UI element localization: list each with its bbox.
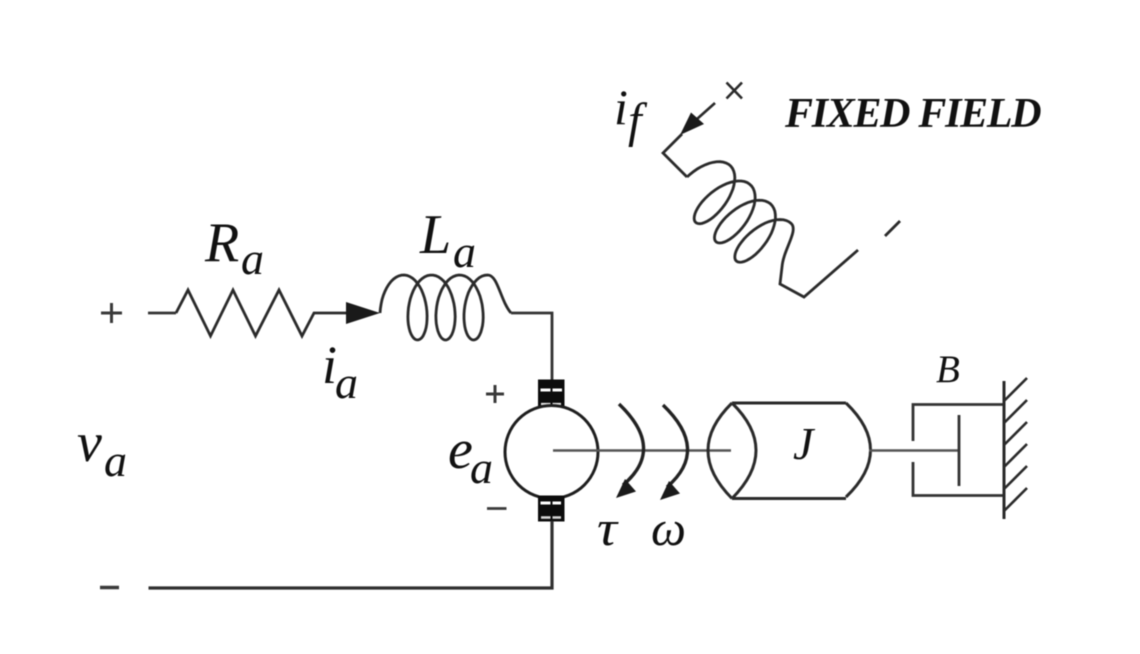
field wire lower jog (780, 250, 858, 297)
current arrow i_a (346, 302, 380, 324)
wire motor to bottom (149, 521, 553, 588)
svg-text:a: a (470, 442, 493, 493)
svg-text:a: a (241, 233, 264, 284)
svg-text:R: R (204, 212, 239, 274)
motor circle e_a (505, 406, 598, 499)
svg-text:f: f (628, 93, 648, 148)
wire (148, 312, 176, 315)
label - (below motor) (487, 507, 507, 510)
field current arrowhead (680, 113, 704, 136)
svg-text:v: v (77, 412, 102, 474)
svg-text:ω: ω (651, 500, 686, 556)
wall (1003, 381, 1006, 519)
label + (above motor) (486, 385, 504, 403)
field open terminal dash (885, 221, 900, 236)
svg-text:τ: τ (597, 500, 619, 556)
damper piston (958, 415, 961, 486)
svg-text:a: a (335, 357, 358, 408)
x symbol (field cross) (727, 83, 743, 99)
speed arc arrow omega (663, 405, 688, 487)
svg-text:J: J (793, 418, 816, 469)
shaft right (inertia to damper) (869, 449, 958, 452)
svg-text:L: L (419, 204, 451, 266)
svg-text:FIXED FIELD: FIXED FIELD (784, 91, 1041, 137)
svg-text:B: B (936, 348, 960, 391)
inertia cylinder J (708, 403, 871, 499)
wire from inductor to motor (511, 313, 552, 380)
svg-text:i: i (614, 79, 628, 135)
torque arc arrow tau (619, 404, 644, 485)
inductor L_a (380, 275, 511, 340)
field current arrow line (697, 103, 715, 119)
brush bottom (538, 496, 565, 522)
node + (positive armature terminal) (101, 303, 122, 323)
svg-text:a: a (104, 435, 127, 486)
field wire upper jog (663, 134, 687, 177)
wall hatching (1004, 378, 1027, 511)
svg-text:a: a (453, 226, 476, 277)
node - (negative terminal) (100, 586, 119, 590)
resistor R_a (176, 290, 346, 336)
damper B cylinder (913, 405, 1004, 496)
brush top (538, 380, 565, 408)
shaft left (motor to inertia) (553, 449, 731, 452)
field inductor coil (668, 149, 808, 286)
